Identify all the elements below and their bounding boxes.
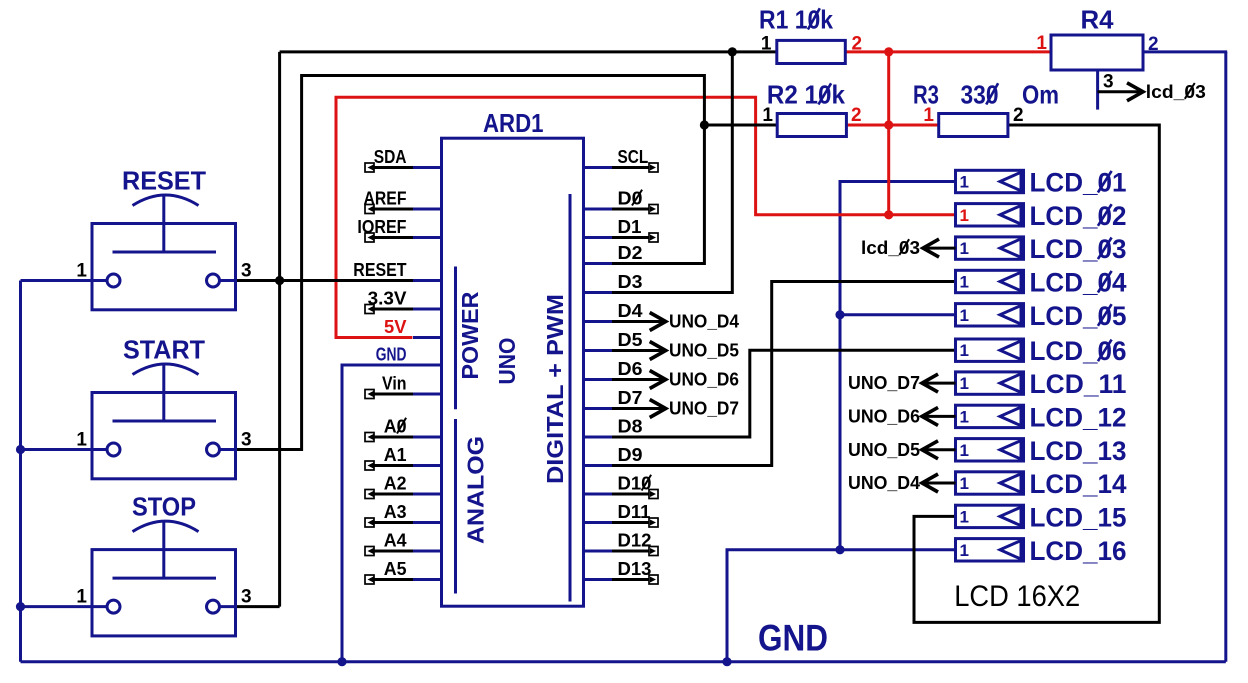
junction R2 pin1 / D2 bbox=[700, 120, 709, 129]
wire GND bottom bus horizontal bbox=[21, 660, 1226, 663]
pin 3 stub of R4 bbox=[1096, 70, 1099, 110]
pin D4 of ARD1 bbox=[584, 320, 613, 323]
label slashed zero of R2 10k bbox=[818, 83, 831, 104]
svg-text:1: 1 bbox=[76, 261, 87, 282]
svg-text:2: 2 bbox=[851, 105, 862, 126]
wire R4 pin3 net label arrow bbox=[1098, 90, 1141, 93]
svg-text:GND: GND bbox=[758, 618, 828, 659]
junction STOP pin1 bbox=[16, 602, 25, 611]
svg-text:LCD_13: LCD_13 bbox=[1030, 436, 1127, 466]
svg-text:A2: A2 bbox=[384, 473, 407, 494]
junction GND pin at bottom bus bbox=[337, 657, 346, 666]
svg-text:1: 1 bbox=[960, 173, 969, 192]
svg-text:5V: 5V bbox=[384, 316, 407, 337]
svg-text:R4: R4 bbox=[1081, 5, 1115, 35]
node port LCD_06 bbox=[956, 339, 1024, 361]
node port LCD_11 bbox=[956, 372, 1024, 394]
junction 5V wire to LCD_02 bbox=[884, 210, 893, 219]
wire ARD1 GND pin to bottom bus bbox=[342, 365, 442, 662]
svg-text:1: 1 bbox=[761, 34, 772, 55]
label slashed zero of lcd_03 bbox=[899, 239, 909, 255]
wire D9 to LCD_04 bbox=[612, 282, 956, 466]
node UNO_D5 at port bbox=[922, 448, 956, 451]
node port LCD_16 bbox=[956, 539, 1024, 561]
label slashed zero of LCD_05 bbox=[1098, 304, 1112, 326]
svg-text:D7: D7 bbox=[618, 387, 643, 408]
label slashed zero of lcd_03 bbox=[1185, 83, 1195, 99]
svg-text:lcd_03: lcd_03 bbox=[1146, 81, 1206, 102]
pin IOREF of ARD1 bbox=[413, 236, 442, 239]
pin A3 of ARD1 bbox=[413, 521, 442, 524]
pin D1 of ARD1 bbox=[584, 236, 613, 239]
svg-text:1: 1 bbox=[960, 507, 969, 526]
pin 3.3V of ARD1 bbox=[413, 308, 442, 311]
svg-text:IOREF: IOREF bbox=[357, 216, 406, 237]
resistor R2 body bbox=[777, 114, 846, 137]
wire START button pin3 bbox=[236, 76, 705, 450]
wire STOP button pin3 bbox=[236, 605, 280, 608]
label slashed zero of R1 10k bbox=[808, 8, 820, 29]
svg-text:1: 1 bbox=[923, 105, 934, 126]
svg-text:POWER: POWER bbox=[457, 291, 483, 379]
label slashed zero of 330 bbox=[986, 83, 998, 104]
pin Vin of ARD1 bbox=[413, 393, 442, 396]
pin RESET of ARD1 bbox=[413, 279, 442, 282]
pin D9 of ARD1 bbox=[584, 464, 613, 467]
svg-text:3: 3 bbox=[241, 430, 252, 451]
pin D0 of ARD1 bbox=[584, 208, 613, 211]
svg-text:SDA: SDA bbox=[374, 146, 407, 167]
pin SCL of ARD1 bbox=[584, 166, 613, 169]
wire LCD_16 to bottom bus bbox=[727, 550, 956, 662]
svg-text:A4: A4 bbox=[384, 530, 407, 551]
wire R2 pin2 to R3 pin1 bbox=[846, 124, 938, 127]
svg-text:1: 1 bbox=[960, 374, 969, 393]
svg-text:2: 2 bbox=[852, 34, 863, 55]
junction R1 pin2 column bbox=[884, 47, 893, 56]
node port LCD_05 bbox=[956, 304, 1024, 326]
label slashed zero of A0 bbox=[397, 418, 406, 434]
wire STOP button pin1 to bus bbox=[19, 605, 107, 608]
svg-text:AREF: AREF bbox=[364, 188, 407, 209]
button START bbox=[92, 393, 236, 479]
svg-text:1: 1 bbox=[762, 105, 773, 126]
wire START button pin1 to bus bbox=[19, 448, 107, 451]
svg-text:UNO_D4: UNO_D4 bbox=[848, 472, 921, 493]
svg-text:1: 1 bbox=[960, 441, 969, 460]
wire D3 to RESET net bbox=[612, 52, 732, 293]
svg-text:DIGITAL + PWM: DIGITAL + PWM bbox=[542, 294, 568, 484]
svg-text:UNO_D7: UNO_D7 bbox=[848, 372, 920, 393]
label slashed zero of LCD_06 bbox=[1098, 340, 1112, 362]
pin D8 of ARD1 bbox=[584, 436, 613, 439]
node UNO_D4 at port bbox=[922, 482, 956, 485]
node port LCD_12 bbox=[956, 405, 1024, 427]
node port LCD_15 bbox=[956, 505, 1024, 527]
svg-text:2: 2 bbox=[1013, 105, 1024, 126]
pin D2 of ARD1 bbox=[584, 262, 613, 265]
svg-text:ARD1: ARD1 bbox=[483, 108, 544, 138]
pin AREF of ARD1 bbox=[413, 208, 442, 211]
svg-text:D8: D8 bbox=[618, 416, 643, 437]
node port LCD_02 bbox=[956, 204, 1024, 226]
button RESET bbox=[92, 224, 236, 310]
pin D6 of ARD1 bbox=[584, 378, 613, 381]
wire GND right bus vertical to R4 pin2 bbox=[1224, 52, 1227, 662]
svg-text:UNO: UNO bbox=[494, 338, 520, 385]
node UNO_D7 at port bbox=[922, 382, 956, 385]
pin A5 of ARD1 bbox=[413, 578, 442, 581]
svg-text:A5: A5 bbox=[384, 558, 407, 579]
pin A2 of ARD1 bbox=[413, 493, 442, 496]
svg-text:START: START bbox=[123, 335, 205, 365]
button STOP bbox=[92, 550, 236, 636]
junction LCD16 at bottom bus bbox=[722, 657, 731, 666]
wire RESET button pin1 to bus bbox=[21, 279, 108, 282]
svg-text:D4: D4 bbox=[618, 300, 644, 321]
junction R1 pin1 / D3 bbox=[728, 47, 737, 56]
svg-text:UNO_D6: UNO_D6 bbox=[669, 369, 739, 390]
svg-text:RESET: RESET bbox=[122, 166, 206, 196]
svg-text:3: 3 bbox=[241, 587, 252, 608]
label slashed zero of LCD_04 bbox=[1098, 271, 1112, 293]
svg-text:1: 1 bbox=[960, 541, 969, 560]
label slashed zero of LCD_01 bbox=[1098, 171, 1112, 193]
op-amp U ARD1 Arduino Uno body bbox=[442, 138, 584, 606]
svg-text:D11: D11 bbox=[618, 501, 651, 522]
wire GND to LCD_05 bbox=[840, 313, 956, 316]
label slashed zero of D10 bbox=[642, 475, 652, 491]
svg-text:1: 1 bbox=[960, 239, 969, 258]
wire RESET net vertical bbox=[278, 52, 281, 607]
pin A4 of ARD1 bbox=[413, 550, 442, 553]
wire R4 pin2 to right bus bbox=[1143, 50, 1227, 53]
svg-text:R2 10k: R2 10k bbox=[767, 80, 845, 110]
svg-text:UNO_D4: UNO_D4 bbox=[669, 311, 740, 332]
label slashed zero of D0 bbox=[632, 190, 642, 206]
node port LCD_13 bbox=[956, 439, 1024, 461]
resistor R1 body bbox=[777, 40, 846, 63]
svg-text:D6: D6 bbox=[618, 358, 643, 379]
svg-text:LCD_14: LCD_14 bbox=[1030, 469, 1127, 499]
svg-text:D1: D1 bbox=[618, 216, 642, 237]
svg-text:D9: D9 bbox=[618, 444, 643, 465]
resistor R4 potentiometer body bbox=[1051, 35, 1143, 70]
svg-text:1: 1 bbox=[960, 306, 969, 325]
label slashed zero of LCD_02 bbox=[1098, 204, 1112, 226]
svg-text:1: 1 bbox=[960, 474, 969, 493]
junction LCD_16 crossing GND vertical bbox=[835, 545, 844, 554]
svg-text:Om: Om bbox=[1022, 80, 1059, 110]
pin D12 of ARD1 bbox=[584, 550, 613, 553]
svg-text:1: 1 bbox=[960, 206, 969, 225]
pin D5 of ARD1 bbox=[584, 349, 613, 352]
pin 5V of ARD1 bbox=[413, 336, 442, 339]
node port LCD_01 bbox=[956, 170, 1024, 192]
svg-text:3.3V: 3.3V bbox=[368, 288, 408, 309]
svg-text:1: 1 bbox=[76, 587, 87, 608]
wire RESET button pin3 to ARD1 RESET pin bbox=[236, 279, 414, 282]
svg-text:D0: D0 bbox=[618, 188, 643, 209]
svg-text:1: 1 bbox=[960, 407, 969, 426]
svg-text:UNO_D5: UNO_D5 bbox=[669, 340, 739, 361]
junction R2 pin2 column bbox=[884, 120, 893, 129]
node port LCD_04 bbox=[956, 270, 1024, 292]
pin GND of ARD1 bbox=[413, 364, 442, 367]
node UNO_D6 at port bbox=[922, 415, 956, 418]
label slashed zero of LCD_03 bbox=[1098, 238, 1112, 260]
svg-text:D3: D3 bbox=[618, 271, 643, 292]
svg-text:RESET: RESET bbox=[353, 259, 407, 280]
svg-text:2: 2 bbox=[1148, 34, 1159, 55]
pin D11 of ARD1 bbox=[584, 521, 613, 524]
svg-text:LCD_15: LCD_15 bbox=[1030, 502, 1127, 532]
svg-text:3: 3 bbox=[241, 261, 252, 282]
svg-text:LCD_16: LCD_16 bbox=[1030, 536, 1127, 566]
svg-text:SCL: SCL bbox=[618, 146, 649, 167]
svg-text:UNO_D7: UNO_D7 bbox=[669, 398, 739, 419]
svg-text:UNO_D6: UNO_D6 bbox=[848, 405, 920, 426]
junction RESET wire bbox=[275, 276, 284, 285]
svg-text:LCD_12: LCD_12 bbox=[1030, 402, 1127, 432]
svg-text:A3: A3 bbox=[384, 501, 407, 522]
svg-text:STOP: STOP bbox=[132, 492, 196, 522]
wire GND left bus vertical bbox=[19, 281, 22, 662]
pin D13 of ARD1 bbox=[584, 578, 613, 581]
junction START pin1 bbox=[16, 445, 25, 454]
pin D10 of ARD1 bbox=[584, 493, 613, 496]
node port LCD_03 bbox=[956, 237, 1024, 259]
svg-text:LCD 16X2: LCD 16X2 bbox=[954, 580, 1080, 613]
svg-text:D13: D13 bbox=[618, 558, 652, 579]
svg-text:1: 1 bbox=[960, 341, 969, 360]
svg-text:A0: A0 bbox=[384, 416, 407, 437]
pin SDA of ARD1 bbox=[413, 166, 442, 169]
svg-text:LCD_11: LCD_11 bbox=[1030, 369, 1127, 399]
junction LCD_05 branch bbox=[835, 310, 844, 319]
wire RESET net top horizontal to R1 pin1 bbox=[280, 50, 777, 53]
node lcd_03 at port bbox=[923, 247, 956, 250]
svg-text:ANALOG: ANALOG bbox=[463, 436, 489, 544]
svg-text:D5: D5 bbox=[618, 329, 643, 350]
node port LCD_14 bbox=[956, 472, 1024, 494]
pin A1 of ARD1 bbox=[413, 464, 442, 467]
wire 5V vertical R1/R2 junction column bbox=[887, 52, 890, 215]
svg-text:D12: D12 bbox=[618, 530, 652, 551]
svg-text:3: 3 bbox=[1103, 72, 1114, 93]
svg-text:1: 1 bbox=[960, 273, 969, 292]
svg-text:1: 1 bbox=[1036, 33, 1047, 54]
resistor R3 body bbox=[939, 114, 1008, 137]
svg-text:UNO_D5: UNO_D5 bbox=[848, 439, 920, 460]
svg-text:R1 10k: R1 10k bbox=[759, 5, 833, 35]
svg-text:A1: A1 bbox=[384, 444, 407, 465]
pin D7 of ARD1 bbox=[584, 407, 613, 410]
svg-text:Vin: Vin bbox=[382, 373, 407, 394]
wire D8 to LCD_06 bbox=[612, 350, 956, 437]
svg-text:1: 1 bbox=[76, 430, 87, 451]
svg-text:lcd_03: lcd_03 bbox=[861, 237, 920, 258]
svg-text:D2: D2 bbox=[618, 242, 643, 263]
pin D3 of ARD1 bbox=[584, 291, 613, 294]
wire R1 pin2 to R4 pin1 bbox=[845, 50, 1051, 53]
wire GND vertical to LCD_01 bbox=[840, 182, 956, 550]
pin A0 of ARD1 bbox=[413, 436, 442, 439]
wire R2 pin1 to D2 net bbox=[704, 124, 777, 127]
svg-text:GND: GND bbox=[376, 344, 407, 365]
wire R3 pin2 to LCD_15 bbox=[914, 125, 1159, 622]
wire 5V from ARD1 pin bbox=[336, 97, 956, 337]
